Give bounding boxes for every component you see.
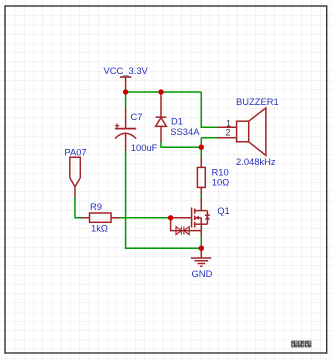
- svg-text:D1: D1: [171, 115, 183, 126]
- svg-text:VCC_3.3V: VCC_3.3V: [104, 65, 149, 76]
- svg-text:2.048kHz: 2.048kHz: [236, 156, 276, 167]
- svg-text:PA07: PA07: [64, 146, 86, 157]
- svg-text:BUZZER1: BUZZER1: [236, 96, 279, 107]
- svg-text:R9: R9: [90, 201, 102, 212]
- svg-text:100uF: 100uF: [131, 142, 158, 153]
- svg-text:C7: C7: [131, 111, 143, 122]
- svg-text:2: 2: [226, 127, 231, 137]
- svg-text:SS34A: SS34A: [170, 126, 200, 137]
- svg-text:Q1: Q1: [217, 205, 230, 216]
- svg-text:1kΩ: 1kΩ: [91, 222, 108, 233]
- svg-text:10Ω: 10Ω: [212, 176, 229, 187]
- svg-text:GND: GND: [192, 268, 213, 279]
